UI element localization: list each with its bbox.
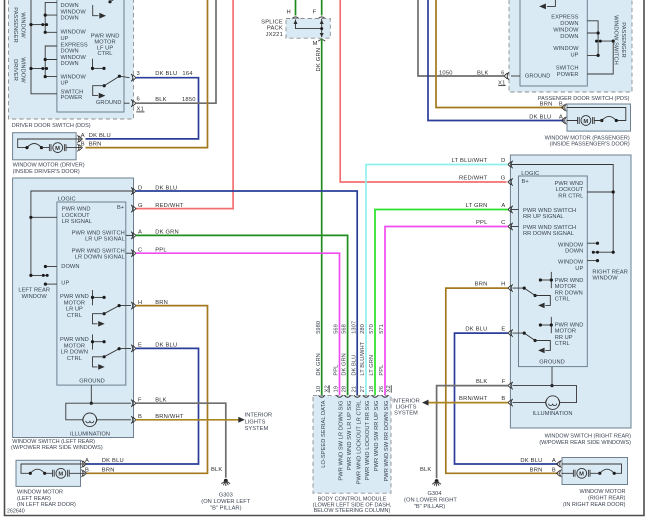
- svg-text:PWR WND: PWR WND: [60, 337, 89, 343]
- right rear switch text PWR WND SWITCH RR UP SIGNAL: [523, 208, 576, 220]
- svg-text:M: M: [313, 41, 318, 47]
- right rear motor pin A: [520, 458, 561, 468]
- right rear switch RIGHT REAR WINDOW label: [592, 269, 627, 281]
- wire BLK (right rear switch F to G304): [437, 386, 508, 479]
- svg-text:1050: 1050: [439, 71, 453, 77]
- svg-text:H: H: [287, 9, 291, 15]
- svg-text:PWR WND: PWR WND: [555, 181, 584, 187]
- BCM label: [313, 497, 392, 514]
- wire DK BLU (right rear switch E to right rear motor A): [455, 333, 559, 464]
- svg-text:RR CTRL: RR CTRL: [558, 193, 583, 199]
- left rear switch pin A stub: [126, 234, 134, 236]
- svg-text:EXPRESS: EXPRESS: [61, 42, 88, 48]
- svg-text:DK BLU: DK BLU: [465, 327, 487, 333]
- svg-text:G303: G303: [219, 492, 233, 498]
- window motor (right rear): [562, 458, 628, 485]
- wire DK BLU (left rear switch E to left rear motor A): [86, 348, 199, 464]
- svg-text:27: 27: [360, 386, 366, 392]
- left rear switch text PWR WND SWITCH LR UP SIGNAL: [72, 230, 125, 242]
- DDS switch power bus wire: [31, 0, 57, 94]
- svg-text:PPL: PPL: [476, 220, 488, 226]
- svg-text:19: 19: [334, 386, 340, 392]
- svg-text:SYSTEM: SYSTEM: [394, 411, 418, 417]
- right rear switch WINDOW DOWN label: [558, 242, 584, 254]
- PDS upper motor-ctrl switch (cut off at top): [539, 0, 555, 9]
- ground G303: [201, 479, 251, 512]
- svg-text:21: 21: [351, 386, 357, 392]
- wire BLK circuit 1850 (DDS pin 6 ground): [136, 0, 216, 103]
- right rear switch motor RR DOWN ctrl contacts: [513, 272, 553, 308]
- DDS row labels: [61, 3, 88, 101]
- right rear switch WINDOW UP label: [558, 260, 584, 272]
- svg-text:568: 568: [342, 324, 348, 334]
- wire BRN/WHT (left rear switch B to interior lights): [136, 419, 239, 421]
- svg-text:UP: UP: [61, 281, 69, 287]
- svg-text:569: 569: [334, 324, 340, 334]
- svg-text:C: C: [501, 220, 505, 226]
- DDS lower motor-ctrl switch (PWR WND MOTOR LF UP CTRL): [91, 59, 130, 99]
- svg-text:RED/WHT: RED/WHT: [155, 203, 184, 209]
- BCM wire color labels rotated: [316, 341, 385, 375]
- svg-text:(ON LOWER RIGHT: (ON LOWER RIGHT: [404, 497, 457, 503]
- svg-text:CTRL: CTRL: [67, 313, 82, 319]
- svg-text:WINDOW: WINDOW: [61, 9, 87, 15]
- svg-text:DOWN: DOWN: [560, 34, 578, 40]
- right rear switch text PWR WND SWITCH RR DOWN SIGNAL: [523, 225, 576, 237]
- svg-text:PWR WND SWITCH: PWR WND SWITCH: [523, 225, 576, 231]
- wire BRN (right rear switch H to right rear motor B): [446, 288, 559, 473]
- left rear switch text PWR WND MOTOR LR UP CTRL: [60, 294, 89, 319]
- right rear switch illumination loop: [513, 386, 577, 410]
- svg-text:SPLICE: SPLICE: [261, 19, 283, 25]
- svg-text:PWR WND SWITCH: PWR WND SWITCH: [523, 208, 576, 214]
- svg-text:LOCKOUT: LOCKOUT: [62, 213, 90, 219]
- svg-text:A: A: [85, 458, 89, 464]
- wire BRN (left rear switch H to left rear motor B): [86, 306, 208, 474]
- splice pack JX221: [261, 0, 330, 47]
- svg-text:H: H: [501, 282, 505, 288]
- window motor (driver): [13, 133, 81, 160]
- interior lights system arrow (left): [238, 417, 245, 423]
- svg-text:B+: B+: [117, 205, 125, 211]
- svg-text:WINDOW: WINDOW: [558, 242, 584, 248]
- svg-text:LOCKOUT: LOCKOUT: [555, 187, 583, 193]
- svg-text:10: 10: [316, 386, 322, 392]
- svg-text:WINDOW: WINDOW: [61, 55, 87, 61]
- svg-text:BRN: BRN: [89, 141, 102, 147]
- DDS pin 3: [131, 71, 140, 82]
- svg-text:A: A: [552, 458, 556, 464]
- svg-text:RR UP: RR UP: [555, 335, 573, 341]
- wire DK GRN circuit 5980 (splice M to BCM pin 10): [321, 39, 323, 396]
- svg-text:DK GRN: DK GRN: [316, 353, 322, 375]
- svg-text:WINDOW: WINDOW: [553, 28, 579, 34]
- wire BRN (passenger window motor B): [436, 0, 564, 108]
- driver door switch (DDS): [9, 0, 134, 119]
- BCM connector arcs: [319, 395, 389, 397]
- svg-text:G: G: [501, 176, 506, 182]
- svg-text:DK BLU: DK BLU: [529, 114, 551, 120]
- window motor (passenger): [567, 104, 631, 131]
- left rear motor pin A: [82, 458, 124, 468]
- svg-text:WINDOW: WINDOW: [61, 74, 87, 80]
- passenger motor pin B: [540, 101, 567, 111]
- svg-text:CTRL: CTRL: [97, 51, 112, 57]
- svg-text:G: G: [138, 203, 143, 209]
- svg-text:DOWN: DOWN: [61, 49, 79, 55]
- svg-text:B: B: [501, 396, 505, 402]
- svg-text:ILLUMINATION: ILLUMINATION: [533, 411, 573, 417]
- svg-text:(INSIDE DRIVER'S DOOR): (INSIDE DRIVER'S DOOR): [13, 169, 80, 175]
- svg-text:PASSENGER: PASSENGER: [620, 22, 626, 57]
- svg-text:570: 570: [369, 324, 375, 334]
- svg-text:PASSENGER: PASSENGER: [12, 7, 18, 42]
- svg-text:M: M: [58, 472, 63, 478]
- svg-text:(IN RIGHT REAR DOOR): (IN RIGHT REAR DOOR): [563, 502, 626, 508]
- svg-text:5980: 5980: [316, 321, 322, 334]
- wire LT BLU/WHT (right rear switch D to BCM pin 27): [366, 165, 508, 396]
- svg-text:WINDOW MOTOR (DRIVER): WINDOW MOTOR (DRIVER): [13, 163, 85, 169]
- svg-text:ILLUMINATION: ILLUMINATION: [70, 431, 110, 437]
- svg-text:DK BLU: DK BLU: [351, 355, 357, 376]
- svg-text:WINDOW: WINDOW: [20, 12, 26, 38]
- svg-text:(RIGHT REAR): (RIGHT REAR): [588, 496, 626, 502]
- svg-text:DK GRN: DK GRN: [342, 353, 348, 375]
- PDS pin 6 / X1: [498, 71, 509, 87]
- svg-text:MOTOR: MOTOR: [555, 284, 576, 290]
- ground G304: [404, 479, 457, 510]
- svg-text:WINDOW MOTOR: WINDOW MOTOR: [579, 489, 625, 495]
- wire DK GRN (left rear switch A to BCM pin 28): [136, 235, 348, 395]
- svg-text:PWR WND SW LR UP SIG: PWR WND SW LR UP SIG: [347, 401, 353, 471]
- svg-text:PWR WND SW LR DOWN SIG: PWR WND SW LR DOWN SIG: [339, 401, 345, 481]
- svg-text:INTERIOR: INTERIOR: [245, 412, 273, 418]
- svg-text:WINDOW: WINDOW: [20, 57, 26, 83]
- svg-text:WINDOW: WINDOW: [553, 46, 579, 52]
- svg-text:LT BLU/WHT: LT BLU/WHT: [360, 341, 366, 375]
- svg-text:LT GRN: LT GRN: [466, 203, 488, 209]
- window switch (left rear): [13, 178, 134, 438]
- left rear switch text PWR WND LOCKOUT LR SIGNAL: [62, 207, 92, 226]
- svg-text:PWR WND SW RR UP SIG: PWR WND SW RR UP SIG: [374, 401, 380, 472]
- svg-text:CTRL: CTRL: [555, 297, 570, 303]
- svg-text:PWR WND: PWR WND: [62, 207, 91, 213]
- svg-text:WINDOW: WINDOW: [61, 30, 87, 36]
- svg-text:WINDOW SWITCH: WINDOW SWITCH: [613, 15, 619, 65]
- svg-text:JX221: JX221: [266, 32, 283, 38]
- svg-text:6: 6: [137, 97, 140, 103]
- svg-text:LR DOWN SIGNAL: LR DOWN SIGNAL: [75, 255, 125, 261]
- wire PPL (right rear switch C to BCM pin 26): [385, 227, 508, 396]
- svg-text:PWR WND: PWR WND: [555, 278, 584, 284]
- svg-text:LO-SPEED SERIAL DATA: LO-SPEED SERIAL DATA: [321, 400, 327, 467]
- svg-text:F: F: [502, 379, 506, 385]
- svg-text:WINDOW: WINDOW: [558, 260, 584, 266]
- svg-text:GROUND: GROUND: [79, 379, 105, 385]
- svg-text:DOWN: DOWN: [61, 61, 79, 67]
- DDS upper motor-ctrl switch (cut off at top): [93, 0, 116, 19]
- wire LT GRN (right rear switch A to BCM pin 18): [375, 210, 508, 396]
- left rear switch lockout line: [31, 216, 57, 218]
- svg-text:PPL: PPL: [379, 365, 385, 376]
- DDS label PWR WND MOTOR LF UP CTRL: [91, 34, 120, 57]
- svg-text:RR DOWN: RR DOWN: [555, 290, 583, 296]
- right rear switch text PWR WND LOCKOUT RR CTRL: [555, 181, 584, 200]
- BCM pin numbers 10 X2 19 28 21 27 18 26 X2: [316, 385, 392, 392]
- left rear switch pin letters and wire colors: [138, 185, 184, 420]
- svg-text:(IN LEFT REAR DOOR): (IN LEFT REAR DOOR): [17, 502, 76, 508]
- left rear switch ground stem: [90, 385, 92, 403]
- svg-text:1307: 1307: [351, 321, 357, 334]
- svg-text:POWER: POWER: [557, 72, 579, 78]
- wire DK BLU (passenger window motor A): [428, 0, 564, 121]
- BCM circuit numbers rotated: [316, 321, 385, 334]
- svg-text:BLK: BLK: [477, 71, 489, 77]
- svg-text:DOWN: DOWN: [560, 21, 578, 27]
- svg-text:571: 571: [379, 324, 385, 334]
- svg-text:LIGHTS: LIGHTS: [245, 419, 266, 425]
- left rear switch LEFT REAR WINDOW label: [18, 288, 50, 300]
- svg-text:WINDOW MOTOR: WINDOW MOTOR: [17, 489, 63, 495]
- svg-text:BRN: BRN: [540, 101, 553, 107]
- svg-text:BLK: BLK: [155, 97, 167, 103]
- svg-text:28: 28: [342, 386, 348, 392]
- right rear switch window contact set: [587, 242, 615, 263]
- svg-text:B: B: [552, 468, 556, 474]
- wire BLK (left rear switch F to G303): [136, 403, 226, 478]
- svg-text:B: B: [559, 101, 563, 107]
- window switch (right rear): [510, 155, 631, 428]
- svg-text:WINDOW: WINDOW: [22, 294, 48, 300]
- svg-text:A: A: [501, 203, 505, 209]
- right rear switch pin letters and wire colors: [452, 158, 506, 402]
- left rear motor pin B: [82, 468, 115, 478]
- right rear switch pin A stub: [510, 209, 518, 211]
- right rear switch lockout line: [587, 191, 613, 193]
- left rear switch pin C stub: [126, 252, 134, 254]
- svg-text:CTRL: CTRL: [555, 341, 570, 347]
- svg-text:LOGIC: LOGIC: [521, 171, 539, 177]
- svg-text:164: 164: [182, 71, 193, 77]
- svg-text:PWR WND LOCKOUT LR CTRL: PWR WND LOCKOUT LR CTRL: [356, 401, 362, 485]
- wire BLK circuit 1050 (PDS pin 6 ground): [418, 0, 505, 76]
- svg-text:PWR WND SWITCH: PWR WND SWITCH: [72, 230, 125, 236]
- BCM internal signal names rotated: [321, 400, 390, 484]
- svg-text:F: F: [313, 9, 317, 15]
- right rear switch pin C stub: [510, 226, 518, 228]
- svg-text:(ON LOWER LEFT: (ON LOWER LEFT: [201, 499, 251, 505]
- window motor (left rear): [16, 460, 85, 486]
- svg-text:UP: UP: [61, 36, 69, 42]
- svg-text:1850: 1850: [182, 97, 196, 103]
- svg-text:CTRL: CTRL: [67, 356, 82, 362]
- svg-text:A: A: [559, 114, 563, 120]
- svg-text:DRIVER: DRIVER: [12, 59, 18, 81]
- svg-text:PWR WND: PWR WND: [60, 294, 89, 300]
- svg-text:LR UP: LR UP: [66, 307, 83, 313]
- svg-text:BLK: BLK: [211, 467, 223, 473]
- svg-text:BELOW STEERING COLUMN): BELOW STEERING COLUMN): [314, 508, 391, 514]
- left rear switch text PWR WND SWITCH LR DOWN SIGNAL: [72, 248, 125, 260]
- svg-text:WINDOW: WINDOW: [592, 276, 618, 282]
- svg-text:GROUND: GROUND: [96, 100, 122, 106]
- svg-text:LT GRN: LT GRN: [369, 355, 375, 376]
- svg-text:MOTOR: MOTOR: [64, 300, 85, 306]
- right rear switch ground stem: [551, 367, 553, 386]
- svg-text:D: D: [501, 158, 505, 164]
- svg-text:PPL: PPL: [334, 365, 340, 376]
- svg-text:"B" PILLAR): "B" PILLAR): [414, 504, 446, 510]
- svg-text:E: E: [501, 327, 505, 333]
- wire BRN/WHT (right rear switch B to interior lights): [428, 402, 508, 404]
- svg-text:LEFT REAR: LEFT REAR: [18, 288, 50, 294]
- svg-text:DOWN: DOWN: [61, 3, 79, 9]
- DDS ground wire to pin 6: [124, 102, 130, 104]
- svg-text:PWR WND: PWR WND: [555, 322, 584, 328]
- svg-text:A: A: [81, 133, 85, 139]
- svg-text:M: M: [579, 472, 584, 478]
- driver motor pin A: [78, 133, 111, 143]
- left rear switch illumination loop: [66, 403, 131, 426]
- DDS passenger window contact set: [29, 2, 57, 33]
- PDS passenger window contact set: [587, 21, 615, 57]
- svg-text:PWR WND LOCKOUT RR SIG: PWR WND LOCKOUT RR SIG: [365, 401, 371, 481]
- svg-text:BRN: BRN: [102, 468, 115, 474]
- svg-text:RR DOWN SIGNAL: RR DOWN SIGNAL: [523, 231, 574, 237]
- svg-text:GROUND: GROUND: [525, 74, 551, 80]
- svg-text:262640: 262640: [7, 509, 25, 515]
- svg-text:3: 3: [137, 71, 140, 77]
- svg-text:MOTOR: MOTOR: [555, 329, 576, 335]
- svg-text:DOWN: DOWN: [61, 264, 79, 270]
- left rear switch window contact set: [29, 265, 57, 286]
- svg-text:BRN: BRN: [475, 282, 488, 288]
- left rear switch internal D bus wire: [31, 191, 134, 275]
- svg-text:WINDOW SWITCH (RIGHT REAR): WINDOW SWITCH (RIGHT REAR): [545, 433, 632, 439]
- svg-text:DK BLU: DK BLU: [102, 458, 124, 464]
- svg-text:DOWN: DOWN: [61, 16, 79, 22]
- right rear switch internal D bus wire: [510, 165, 613, 253]
- svg-text:LR SIGNAL: LR SIGNAL: [62, 219, 92, 225]
- PDS switch power bus wire: [587, 41, 613, 74]
- passenger motor pin A: [529, 114, 566, 124]
- svg-text:RR UP SIGNAL: RR UP SIGNAL: [523, 214, 564, 220]
- left rear switch motor LR DOWN ctrl contacts: [91, 334, 131, 369]
- svg-text:B+: B+: [522, 179, 530, 185]
- right rear switch motor RR UP ctrl contacts: [513, 317, 553, 353]
- svg-text:DK BLU: DK BLU: [155, 71, 177, 77]
- svg-text:EXPRESS: EXPRESS: [551, 15, 578, 21]
- DDS driver window contact set: [29, 46, 57, 78]
- svg-text:PWR WND SW RR DOWN SIG: PWR WND SW RR DOWN SIG: [384, 401, 390, 482]
- wire BRN (driver window motor B): [86, 0, 208, 148]
- svg-text:LT BLU/WHT: LT BLU/WHT: [452, 158, 488, 164]
- svg-text:(INSIDE PASSENGER'S DOOR): (INSIDE PASSENGER'S DOOR): [550, 142, 630, 148]
- svg-text:MOTOR: MOTOR: [64, 343, 85, 349]
- wire RED/WHT (top to right rear switch pin G): [340, 0, 506, 182]
- svg-text:M: M: [55, 146, 60, 152]
- interior lights system arrow (right): [422, 400, 429, 406]
- svg-text:(W/POWER REAR SIDE WINDOWS): (W/POWER REAR SIDE WINDOWS): [11, 445, 103, 451]
- svg-text:M: M: [583, 119, 588, 125]
- svg-text:BLK: BLK: [420, 467, 432, 473]
- svg-text:DRIVER DOOR SWITCH (DDS): DRIVER DOOR SWITCH (DDS): [12, 123, 91, 129]
- svg-text:B: B: [85, 468, 89, 474]
- svg-text:DK BLU: DK BLU: [89, 133, 111, 139]
- PDS row labels: [551, 15, 579, 78]
- right rear switch text PWR WND MOTOR RR UP CTRL: [555, 322, 584, 347]
- svg-text:UP: UP: [575, 266, 583, 272]
- driver motor pin B: [78, 141, 102, 151]
- svg-text:BLK: BLK: [476, 379, 488, 385]
- right rear switch pins D G A C H E F B: [508, 161, 513, 407]
- svg-text:280: 280: [360, 324, 366, 334]
- svg-text:B: B: [81, 141, 85, 147]
- svg-text:PWR WND SWITCH: PWR WND SWITCH: [72, 248, 125, 254]
- wire PPL (left rear switch C to BCM pin 19): [136, 253, 340, 395]
- right rear motor pin B: [530, 468, 562, 478]
- DDS pin 6 / X1: [131, 97, 144, 113]
- svg-text:18: 18: [369, 386, 375, 392]
- svg-text:RIGHT REAR: RIGHT REAR: [592, 269, 627, 275]
- svg-text:PACK: PACK: [267, 26, 283, 32]
- passenger door switch (PDS): [509, 0, 632, 92]
- right rear switch text PWR WND MOTOR RR DOWN CTRL: [555, 278, 584, 303]
- left rear switch motor LR UP ctrl contacts: [91, 290, 131, 327]
- svg-text:DK GRN: DK GRN: [316, 48, 322, 72]
- svg-text:26: 26: [379, 386, 385, 392]
- svg-text:G304: G304: [427, 491, 441, 497]
- svg-text:(W/POWER REAR SIDE WINDOWS): (W/POWER REAR SIDE WINDOWS): [539, 440, 631, 446]
- svg-text:LR DOWN: LR DOWN: [61, 350, 88, 356]
- svg-text:LR UP SIGNAL: LR UP SIGNAL: [85, 237, 125, 243]
- svg-text:POWER: POWER: [61, 95, 83, 101]
- left rear switch pins D G A C H E F B: [131, 187, 136, 423]
- svg-text:LOGIC: LOGIC: [58, 196, 76, 202]
- wire DK BLU circuit 164 (DDS pin 3 to driver window motor A): [86, 78, 199, 139]
- body control module: [313, 396, 391, 494]
- svg-text:BRN: BRN: [530, 468, 543, 474]
- svg-text:GROUND: GROUND: [539, 359, 565, 365]
- svg-text:UP: UP: [570, 52, 578, 58]
- svg-text:UP: UP: [61, 81, 69, 87]
- wire RED/WHT (left rear switch pin G to top): [136, 0, 233, 209]
- wire DK BLU (left rear switch D to BCM pin 21): [136, 191, 357, 395]
- svg-text:"B" PILLAR): "B" PILLAR): [210, 505, 242, 511]
- svg-text:RED/WHT: RED/WHT: [459, 176, 488, 182]
- svg-text:SWITCH: SWITCH: [556, 65, 579, 71]
- svg-text:DOWN: DOWN: [565, 249, 583, 255]
- svg-text:BRN/WHT: BRN/WHT: [459, 396, 488, 402]
- svg-text:SYSTEM: SYSTEM: [245, 426, 269, 432]
- svg-text:DK BLU: DK BLU: [520, 458, 542, 464]
- left rear switch text PWR WND MOTOR LR DOWN CTRL: [60, 337, 89, 362]
